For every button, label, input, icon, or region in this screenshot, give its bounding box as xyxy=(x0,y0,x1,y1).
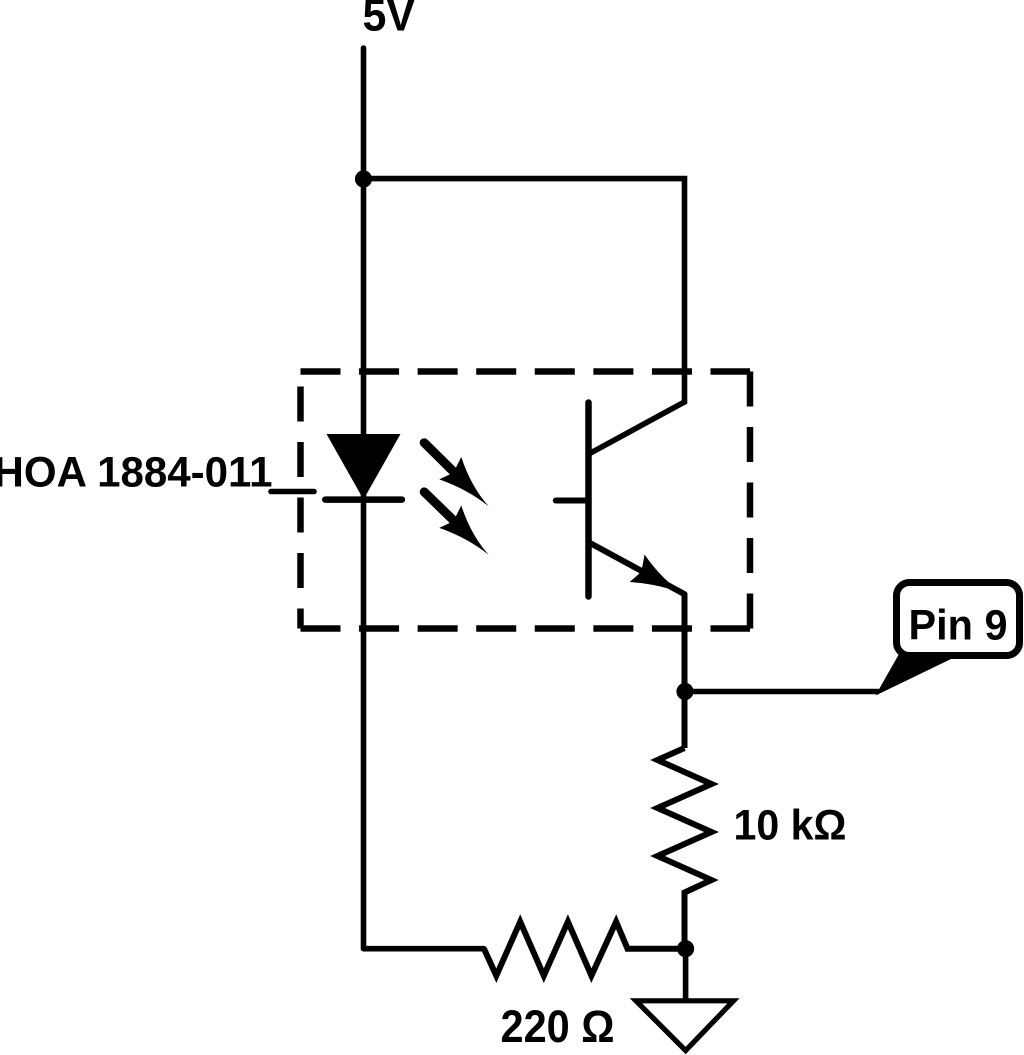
light emission arrow 2 shaft xyxy=(424,492,467,534)
Pin 9 callout box xyxy=(897,583,1020,656)
phototransistor Q1 emitter arrowhead xyxy=(630,555,692,608)
svg-text:10 kΩ: 10 kΩ xyxy=(734,802,847,850)
light emission arrow 1 shaft xyxy=(424,443,467,485)
svg-text:HOA 1884-011: HOA 1884-011 xyxy=(0,449,273,497)
phototransistor Q1 emitter diagonal and wire down xyxy=(590,543,685,748)
wire to ground xyxy=(683,949,689,1000)
svg-text:5V: 5V xyxy=(363,0,416,41)
label leader line HOA 1884-011 xyxy=(271,489,314,495)
node junction dot at emitter / pin9 xyxy=(676,683,693,700)
optocoupler U1 dashed package outline xyxy=(301,372,751,629)
LED D1 anode triangle xyxy=(327,434,401,500)
light emission arrow 1 head xyxy=(439,457,499,517)
node junction dot at ground net xyxy=(677,940,694,957)
wire top branch to collector xyxy=(364,179,685,454)
resistor R1 10 kOhm zigzag xyxy=(658,748,712,949)
light emission arrow 2 head xyxy=(439,506,499,566)
wire 5V vertical down to 220 ohm, with bottom horizontal run xyxy=(364,48,485,949)
resistor R2 220 Ohm zigzag xyxy=(484,922,686,976)
svg-text:Pin 9: Pin 9 xyxy=(909,602,1008,650)
svg-text:220 Ω: 220 Ω xyxy=(501,1001,615,1052)
ground symbol xyxy=(636,1001,734,1051)
Pin 9 callout tail xyxy=(876,654,952,696)
phototransistor Q1 base bar xyxy=(585,403,592,597)
LED D1 cathode bar xyxy=(325,496,402,503)
phototransistor Q1 base lead xyxy=(556,498,589,504)
node junction dot at 5V branch xyxy=(355,170,372,187)
wire to Pin 9 callout xyxy=(685,689,879,695)
